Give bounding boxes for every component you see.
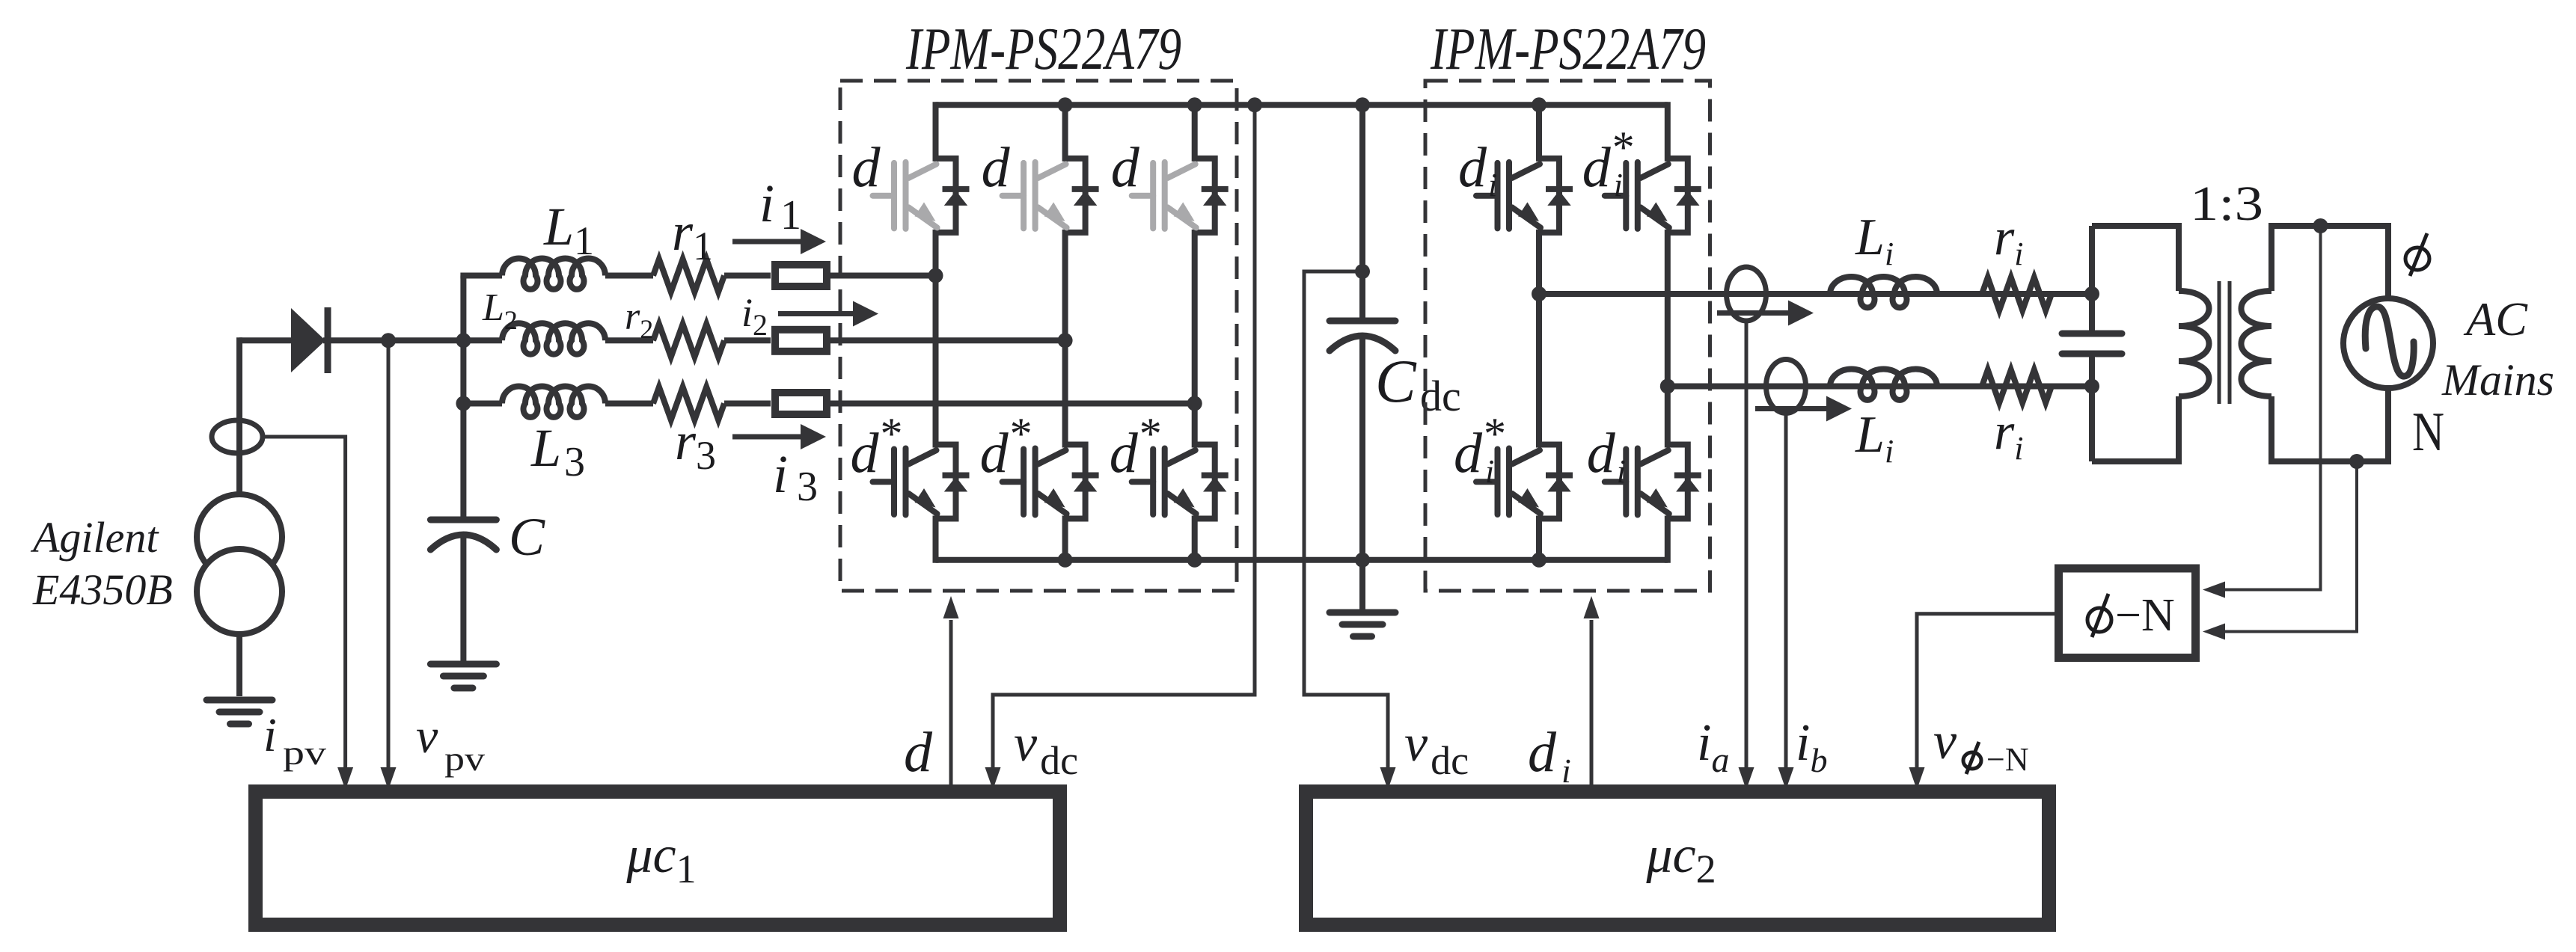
svg-text:i: i: [1614, 167, 1623, 203]
top bus dot legA: [1532, 97, 1546, 112]
svg-text:d: d: [980, 422, 1009, 485]
wire v_phi-N sense: [1917, 614, 2056, 782]
node dot v_pv tap: [381, 333, 396, 348]
node dot N tap: [2349, 454, 2364, 469]
dashed box IPM module 2: [1425, 81, 1710, 591]
arrow current direction row B: [1755, 406, 1828, 411]
node dot phi tap: [2313, 218, 2328, 233]
IGBT top leg3 (gray): [1195, 159, 1215, 233]
capacitor C_dc: [1330, 318, 1395, 325]
svg-text:1:3: 1:3: [2190, 176, 2263, 231]
arrowhead i_b into uc2: [1778, 767, 1794, 790]
current sensor box row2: [775, 330, 827, 351]
bridge leg 2 wires: [1062, 102, 1068, 162]
diode D: [291, 308, 325, 372]
node dot v_dc tap on top bus: [1247, 97, 1262, 112]
svg-text:AC: AC: [2463, 292, 2528, 346]
svg-text:−N: −N: [1986, 741, 2029, 778]
node dot C_dc sense tap: [1355, 264, 1370, 279]
svg-text:d: d: [1587, 422, 1616, 485]
wire i_a sense: [1745, 321, 1749, 782]
arrow d control: [949, 620, 953, 784]
node dot legB output: [1660, 379, 1675, 394]
arrowhead N into phi-N box: [2203, 624, 2225, 640]
IGBT bottom leg1: [936, 445, 956, 519]
svg-text:d: d: [1110, 422, 1139, 485]
wire row1: [605, 273, 653, 279]
transformer secondary: [2271, 226, 2388, 298]
node dot legA output: [1532, 286, 1546, 301]
IGBT top legB: [1668, 159, 1688, 233]
current sensor ellipse row B: [1766, 360, 1806, 414]
svg-text:*: *: [1010, 409, 1032, 458]
inductor L_i row A: [1830, 277, 1937, 307]
wire v_dc sense to uc1: [993, 105, 1255, 782]
bridge leg 1 wires: [933, 102, 939, 162]
IGBT bottom legA: [1539, 445, 1559, 519]
resistor r3: [653, 387, 724, 420]
wire: v_pv sense: [387, 340, 391, 782]
wire: row3 start: [463, 401, 502, 407]
svg-text:Mains: Mains: [2441, 355, 2554, 405]
AC mains source: [2343, 298, 2433, 388]
arrow i1: [732, 239, 802, 245]
svg-text:i: i: [1485, 453, 1494, 490]
wire output row B: [1668, 384, 2092, 390]
wire primary left vertical upper: [2089, 226, 2095, 331]
node dot C_dc top: [1355, 97, 1370, 112]
bottom DC bus: [936, 557, 1668, 563]
wire: i_pv sense tap: [263, 437, 346, 782]
svg-text:IPM-PS22A79: IPM-PS22A79: [905, 16, 1181, 82]
svg-text:d: d: [1582, 136, 1612, 199]
svg-text:d: d: [1454, 422, 1483, 485]
svg-text:i: i: [1561, 752, 1571, 790]
arrow i2: [778, 311, 854, 316]
inductor L_i row B: [1830, 369, 1937, 400]
wire output row A: [1539, 291, 2092, 297]
wire primary left vertical lower: [2089, 357, 2095, 461]
svg-text:d: d: [904, 721, 933, 784]
IGBT bottom legB: [1668, 445, 1688, 519]
top bus dots module1: [1058, 97, 1073, 112]
bottom bus dot legA: [1532, 553, 1546, 568]
wire v_dc sense to uc2: [1304, 271, 1388, 782]
capacitor across output: [2062, 331, 2122, 337]
arrowhead v_dc into uc1: [985, 767, 1001, 790]
transformer primary: [2092, 226, 2179, 291]
arrowhead v_dc into uc2: [1380, 767, 1396, 790]
wire C_dc upper: [1359, 105, 1365, 318]
svg-text:pv: pv: [283, 734, 326, 772]
current source circle 2: [197, 549, 282, 634]
node dot leg2 row2: [1058, 333, 1073, 348]
dashed box IPM module 1: [840, 81, 1237, 591]
svg-text:d: d: [1111, 136, 1140, 199]
IGBT top legA: [1539, 159, 1559, 233]
current source circle 1: [197, 494, 282, 580]
microcontroller box uc1: [256, 792, 1060, 925]
wire row2: [605, 337, 653, 343]
svg-text:IPM-PS22A79: IPM-PS22A79: [1430, 16, 1706, 82]
IGBT top leg2 (gray): [1065, 159, 1086, 233]
svg-text:i: i: [263, 708, 277, 761]
node dot leg3 row3: [1187, 396, 1202, 411]
svg-text:−N: −N: [2115, 590, 2175, 641]
svg-text:C: C: [1375, 347, 1417, 415]
wire: left vertical joining three rows and C: [460, 276, 466, 518]
arrow i3: [732, 434, 802, 440]
wire row2 into bridge: [828, 337, 1065, 343]
current sensor ellipse row A: [1727, 267, 1766, 321]
svg-text:v: v: [416, 709, 438, 764]
node dot input junction: [456, 333, 471, 348]
svg-text:*: *: [1612, 123, 1635, 172]
svg-text:d: d: [852, 136, 881, 199]
inductor L2: [502, 323, 605, 354]
wire N sense: [2209, 461, 2357, 632]
ground under C_dc: [1330, 609, 1395, 616]
wire row1 into bridge: [828, 273, 936, 279]
wire i_b sense: [1784, 414, 1788, 783]
node dot C_dc bottom bus: [1355, 553, 1370, 568]
wire: current source to ground: [236, 634, 242, 696]
transformer core: [2218, 281, 2221, 404]
IGBT bottom leg3: [1195, 445, 1215, 519]
resistor r2: [653, 324, 724, 357]
resistor r_i row A: [1982, 277, 2052, 310]
wire: row1 start: [460, 273, 502, 279]
svg-text:*: *: [1139, 409, 1162, 458]
svg-text:i: i: [1488, 167, 1497, 203]
node dot row B cap junction: [2084, 379, 2099, 394]
IGBT bottom leg2: [1065, 445, 1086, 519]
current sensor box row1: [775, 265, 827, 286]
arrowhead phi into phi-N box: [2203, 582, 2225, 598]
ground under C: [430, 661, 496, 668]
current sensor box row3: [775, 393, 827, 414]
wire C_dc lower to ground: [1359, 337, 1365, 609]
bridge leg B wires: [1665, 102, 1671, 162]
svg-text:Agilent: Agilent: [30, 513, 159, 562]
node dot row3 junction: [456, 396, 471, 411]
label phi-N: [2087, 594, 2111, 637]
svg-text:N: N: [2412, 402, 2444, 463]
node dot leg1 row1: [928, 268, 943, 283]
microcontroller box uc2: [1306, 792, 2049, 925]
inductor L1: [502, 259, 605, 289]
arrowhead i_pv into uc1: [337, 767, 353, 790]
svg-text:d: d: [982, 136, 1011, 199]
arrowhead i_a into uc2: [1739, 767, 1754, 790]
phi-N box: [2059, 568, 2196, 658]
svg-text:C: C: [509, 507, 545, 567]
label phi: [2405, 233, 2429, 276]
IGBT top leg1 (gray): [936, 159, 956, 233]
ground under current source: [206, 697, 272, 704]
svg-text:d: d: [1458, 136, 1487, 199]
arrowhead v_pv into uc1: [381, 767, 397, 790]
wire phi sense: [2209, 226, 2321, 590]
bridge leg A wires: [1536, 102, 1542, 162]
wire row2: [724, 337, 771, 343]
svg-text:v: v: [1933, 713, 1957, 770]
wire row3 into bridge: [828, 401, 1195, 407]
arrowhead v_phi-N into uc2: [1909, 767, 1925, 790]
arrow current direction row A: [1717, 310, 1790, 316]
wire row1: [724, 273, 771, 279]
arrow d_i control: [1590, 620, 1594, 784]
inductor L3: [502, 387, 605, 417]
current sensor ellipse i_pv: [212, 420, 263, 453]
svg-text:d: d: [851, 422, 880, 485]
wire row3: [724, 401, 771, 407]
svg-text:pv: pv: [444, 740, 485, 778]
bridge leg 3 wires: [1192, 102, 1198, 162]
bottom bus dots module1: [1058, 553, 1073, 568]
wire: C to ground: [460, 536, 466, 661]
wire: PV source to diode anode: [239, 337, 293, 343]
capacitor C: [430, 517, 496, 523]
top DC bus: [936, 102, 1668, 108]
svg-text:*: *: [881, 409, 903, 458]
node dot row A cap junction: [2084, 286, 2099, 301]
svg-text:E4350B: E4350B: [32, 565, 173, 614]
resistor r_i row B: [1982, 370, 2052, 403]
svg-text:d: d: [1528, 721, 1557, 784]
svg-text:*: *: [1484, 409, 1506, 458]
resistor r1: [653, 260, 724, 292]
wire row3: [605, 401, 653, 407]
svg-text:i: i: [1617, 453, 1626, 490]
wire: diode cathode to node: [323, 337, 502, 343]
